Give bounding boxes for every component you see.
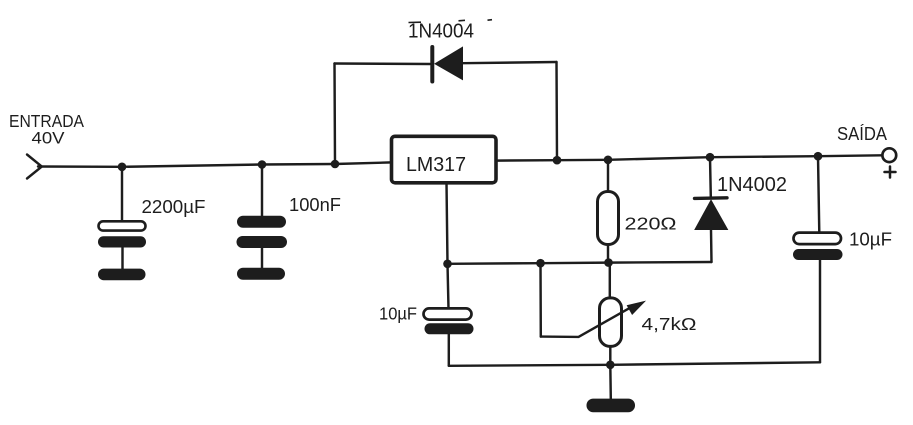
svg-text:4,7kΩ: 4,7kΩ <box>642 314 697 334</box>
svg-text:220Ω: 220Ω <box>625 214 677 234</box>
ground main <box>587 399 636 413</box>
svg-text:100nF: 100nF <box>289 195 341 215</box>
wire 220ohm top <box>607 160 609 192</box>
wire left 10uF bottom <box>448 334 450 366</box>
diode D1 1N4004 cathode bar <box>430 47 434 82</box>
svg-text:SAÍDA: SAÍDA <box>837 124 887 144</box>
wire 100nF branch upper <box>261 165 263 217</box>
capacitor C3 10uF top plate (hollow) <box>424 308 472 319</box>
output terminal circle <box>882 148 896 162</box>
wire wiper vertical <box>539 263 542 336</box>
diode D1 1N4004 triangle <box>435 47 463 79</box>
potentiometer P1 body <box>600 298 622 347</box>
regulator U1 LM317 box <box>392 136 497 183</box>
wire 1N4002 anode to rail <box>709 157 712 197</box>
svg-text:LM317: LM317 <box>406 154 466 176</box>
wire ADJ rail <box>448 262 712 264</box>
capacitor C1 2200uF bottom plate <box>98 236 146 247</box>
wire 2200uF branch upper <box>121 167 123 222</box>
capacitor C4 10uF bottom plate <box>793 249 843 260</box>
wire main rail right <box>496 155 883 160</box>
capacitor C2 100nF top plate <box>237 216 286 228</box>
overbar on 1 of 1N4004 <box>409 21 422 23</box>
output plus sign <box>885 167 896 178</box>
junction node rail/loop-left <box>331 160 340 169</box>
wire 2200uF branch lower <box>121 247 123 269</box>
wire 1N4002 cathode down <box>710 230 713 263</box>
resistor R1 220ohm body <box>598 192 619 245</box>
wire LM317 ADJ pin <box>447 183 448 264</box>
wire 220ohm bottom <box>607 244 609 263</box>
potentiometer P1 arrowhead <box>627 302 644 315</box>
wire pot bottom <box>609 346 611 365</box>
svg-text:1N4004: 1N4004 <box>408 21 474 43</box>
capacitor C2 100nF bottom plate <box>237 236 288 248</box>
junction node rail/C1 <box>118 163 127 172</box>
diode D2 1N4002 triangle <box>695 200 728 229</box>
svg-text:ENTRADA: ENTRADA <box>9 111 84 131</box>
wire main rail left <box>38 162 392 166</box>
junction node ADJ/C3 <box>443 260 452 269</box>
wire potentiometer wiper arrow shaft <box>541 306 634 337</box>
wire diode loop right vertical <box>555 62 558 160</box>
svg-text:40V: 40V <box>32 130 65 148</box>
wire 100nF branch lower <box>261 248 263 269</box>
junction node ADJ/wiper <box>536 259 545 268</box>
junction node ADJ/R1-pot <box>604 258 613 267</box>
wire diode loop top right <box>463 62 557 63</box>
capacitor C4 10uF top plate (hollow) <box>794 233 842 245</box>
svg-text:10µF: 10µF <box>849 230 892 250</box>
svg-text:10µF: 10µF <box>379 304 417 324</box>
junction node rail/C4 <box>814 152 823 161</box>
junction node rail/R1 <box>604 156 613 165</box>
svg-text:1N4002: 1N4002 <box>717 174 787 196</box>
overbar stray mark over 0 <box>459 19 466 22</box>
wire right 10uF bottom vertical <box>819 260 821 363</box>
ground under C1 <box>98 269 146 281</box>
wire diode loop top left <box>335 62 431 65</box>
wire right 10uF top vertical <box>818 156 819 233</box>
capacitor C1 2200uF top plate (hollow) <box>99 221 146 230</box>
wire left 10uF top <box>448 264 449 309</box>
wire bottom rail <box>449 362 820 366</box>
junction node rail/D2 <box>706 153 715 162</box>
wire pot top <box>609 263 611 299</box>
junction node rail/loop-right <box>553 156 562 165</box>
wire diode loop left vertical <box>333 64 336 165</box>
junction node bottom/ground <box>606 361 615 370</box>
wire ground stem <box>609 365 612 399</box>
diode D2 1N4002 cathode bar <box>695 196 728 200</box>
junction node rail/C2 <box>258 160 267 169</box>
stray scan mark <box>488 19 493 22</box>
capacitor C3 10uF bottom plate <box>425 323 474 334</box>
input terminal chevron <box>27 155 42 179</box>
ground under C2 <box>237 268 285 280</box>
svg-text:2200µF: 2200µF <box>142 197 206 217</box>
